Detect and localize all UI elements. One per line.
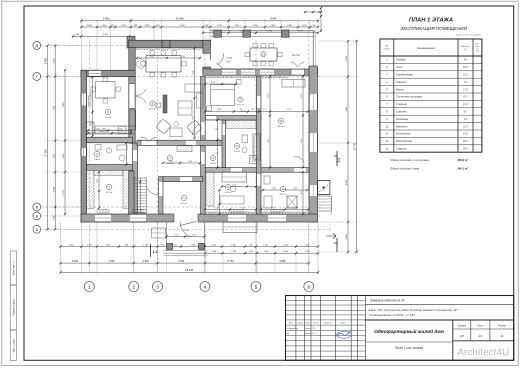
svg-text:2 880: 2 880 xyxy=(144,25,150,27)
svg-text:2 120: 2 120 xyxy=(91,122,93,126)
svg-text:2 300: 2 300 xyxy=(241,207,245,209)
svg-text:Кол.уч: Кол.уч xyxy=(298,323,303,325)
svg-text:1 980: 1 980 xyxy=(293,188,297,190)
svg-text:2 050: 2 050 xyxy=(294,207,298,209)
svg-text:1 430: 1 430 xyxy=(143,244,148,246)
svg-text:1 570: 1 570 xyxy=(211,82,215,84)
svg-text:4 760: 4 760 xyxy=(103,34,108,36)
svg-text:10: 10 xyxy=(479,334,483,338)
svg-text:14.2 м²: 14.2 м² xyxy=(237,103,244,106)
svg-text:5 960: 5 960 xyxy=(103,16,110,20)
svg-text:2 940: 2 940 xyxy=(181,56,185,58)
svg-text:4 860: 4 860 xyxy=(268,139,270,143)
svg-text:3 900: 3 900 xyxy=(53,186,55,192)
svg-text:Бабаев Т. М.: Бабаев Т. М. xyxy=(305,328,316,330)
svg-text:17.3: 17.3 xyxy=(463,88,468,91)
svg-text:1 810: 1 810 xyxy=(234,25,240,27)
svg-text:6: 6 xyxy=(307,284,310,290)
svg-text:Кухня: Кухня xyxy=(396,87,404,91)
svg-text:4 000: 4 000 xyxy=(346,55,348,61)
svg-text:Поз.: Поз. xyxy=(385,46,389,48)
svg-text:1 960: 1 960 xyxy=(87,25,93,27)
svg-text:4 960: 4 960 xyxy=(109,260,116,263)
svg-text:8 890: 8 890 xyxy=(346,179,348,185)
svg-text:5 300: 5 300 xyxy=(178,260,185,263)
svg-text:166.9 м²: 166.9 м² xyxy=(457,158,468,162)
svg-text:2: 2 xyxy=(132,284,135,290)
svg-text:1 010: 1 010 xyxy=(172,244,177,246)
svg-text:760: 760 xyxy=(161,244,164,246)
svg-text:Взам. инв. №: Взам. инв. № xyxy=(13,260,16,275)
svg-text:1 720: 1 720 xyxy=(174,234,178,236)
svg-text:17 160: 17 160 xyxy=(45,148,48,156)
svg-text:2 130: 2 130 xyxy=(271,207,275,209)
svg-text:Площадь: Площадь xyxy=(461,45,471,48)
svg-text:2 080: 2 080 xyxy=(272,188,276,190)
svg-text:4: 4 xyxy=(204,284,207,290)
svg-text:Однофартирный жилой дом: Однофартирный жилой дом xyxy=(374,328,444,335)
svg-text:Б: Б xyxy=(35,214,38,219)
svg-text:1 760: 1 760 xyxy=(211,251,216,253)
svg-text:2 060: 2 060 xyxy=(283,251,288,253)
svg-text:24.7: 24.7 xyxy=(462,148,468,151)
svg-text:План 1-ого этажа: План 1-ого этажа xyxy=(395,346,423,350)
svg-text:3 100: 3 100 xyxy=(91,92,93,96)
svg-text:2 640: 2 640 xyxy=(143,260,150,263)
svg-text:4 640: 4 640 xyxy=(301,139,303,143)
svg-text:Заказчик Евтеев А. М.: Заказчик Евтеев А. М. xyxy=(370,298,405,302)
svg-text:1 350: 1 350 xyxy=(301,25,307,27)
svg-text:2 670: 2 670 xyxy=(150,56,154,58)
svg-text:1 410: 1 410 xyxy=(283,244,288,246)
svg-text:3 380: 3 380 xyxy=(346,234,348,240)
svg-text:860: 860 xyxy=(76,34,79,36)
svg-text:Холл: Холл xyxy=(395,65,403,69)
svg-text:5 880: 5 880 xyxy=(279,260,286,263)
svg-text:3.9 м²: 3.9 м² xyxy=(210,162,216,165)
svg-text:Санузел: Санузел xyxy=(396,80,407,84)
svg-text:1 460: 1 460 xyxy=(69,244,74,246)
svg-text:Дата: Дата xyxy=(340,323,346,325)
svg-text:1 800: 1 800 xyxy=(96,128,100,130)
svg-text:4.1 м²: 4.1 м² xyxy=(181,202,187,205)
svg-text:Листов: Листов xyxy=(497,325,507,327)
svg-text:2 520: 2 520 xyxy=(214,153,218,155)
svg-text:1: 1 xyxy=(88,284,91,290)
svg-text:240.3 м²: 240.3 м² xyxy=(456,167,468,171)
svg-text:2 260: 2 260 xyxy=(252,25,258,27)
svg-text:Подпись: Подпись xyxy=(325,322,332,325)
svg-text:1 850: 1 850 xyxy=(214,129,218,131)
svg-text:Форма 2 ГОСТ 21.501-2011: Форма 2 ГОСТ 21.501-2011 xyxy=(456,33,481,36)
svg-text:1 810: 1 810 xyxy=(264,251,269,253)
svg-text:3 630: 3 630 xyxy=(268,94,270,98)
svg-text:10.2: 10.2 xyxy=(463,74,468,77)
svg-text:9 940: 9 940 xyxy=(270,16,277,20)
svg-text:Гостиная-столовая: Гостиная-столовая xyxy=(396,95,423,99)
svg-text:14.2 м²: 14.2 м² xyxy=(280,193,287,196)
svg-text:1 880: 1 880 xyxy=(287,25,293,27)
svg-text:3: 3 xyxy=(156,284,159,290)
svg-text:Стадия: Стадия xyxy=(457,324,466,327)
svg-text:Терраса: Терраса xyxy=(396,147,407,151)
svg-text:1 820: 1 820 xyxy=(188,161,192,163)
svg-text:Мастерская: Мастерская xyxy=(396,139,413,143)
svg-text:Санузел: Санузел xyxy=(396,110,407,114)
svg-text:ЭКСПЛИКАЦИЯ ПОМЕЩЕНИЙ: ЭКСПЛИКАЦИЯ ПОМЕЩЕНИЙ xyxy=(400,24,467,31)
svg-text:2 210: 2 210 xyxy=(232,184,236,186)
svg-text:7 480: 7 480 xyxy=(346,106,348,112)
svg-text:14: 14 xyxy=(500,334,504,338)
svg-text:1-1: 1-1 xyxy=(153,250,158,254)
svg-text:"Степаньковская слобода", уч.: "Степаньковская слобода", уч. 184 xyxy=(369,313,416,317)
svg-text:Тамбур: Тамбур xyxy=(396,58,406,62)
svg-text:3 470: 3 470 xyxy=(301,94,303,98)
svg-text:В: В xyxy=(35,205,38,210)
svg-text:1 760: 1 760 xyxy=(97,179,99,183)
svg-text:4 450: 4 450 xyxy=(193,71,195,75)
svg-text:1 640: 1 640 xyxy=(191,244,196,246)
svg-text:1 460: 1 460 xyxy=(231,244,236,246)
svg-text:1 700: 1 700 xyxy=(119,131,123,133)
svg-text:26.7: 26.7 xyxy=(462,140,468,143)
svg-text:7 900: 7 900 xyxy=(63,102,65,108)
svg-text:3 060: 3 060 xyxy=(72,260,79,263)
svg-text:4 620: 4 620 xyxy=(180,25,186,27)
svg-text:Спальня: Спальня xyxy=(396,102,408,106)
svg-text:Инв. № подл.: Инв. № подл. xyxy=(13,338,16,353)
svg-text:3 540: 3 540 xyxy=(63,153,65,159)
svg-text:11.4 м²: 11.4 м² xyxy=(225,191,232,194)
svg-text:Д: Д xyxy=(35,43,38,48)
svg-text:-0.200: -0.200 xyxy=(226,58,233,60)
svg-text:Кабинет: Кабинет xyxy=(396,124,408,128)
svg-text:24.7 м²: 24.7 м² xyxy=(291,54,300,57)
svg-text:1 810: 1 810 xyxy=(270,25,276,27)
svg-text:Общая площадь 1-ого этажа: Общая площадь 1-ого этажа xyxy=(390,158,429,162)
svg-text:2 500: 2 500 xyxy=(53,215,55,221)
svg-text:410: 410 xyxy=(263,109,266,111)
svg-text:2 210: 2 210 xyxy=(215,207,219,209)
svg-text:помещ.: помещ. xyxy=(383,48,390,50)
svg-text:11.4: 11.4 xyxy=(463,125,468,128)
svg-text:2 250: 2 250 xyxy=(231,251,236,253)
svg-text:910: 910 xyxy=(125,244,128,246)
svg-text:41.7: 41.7 xyxy=(463,96,468,99)
svg-text:1 210: 1 210 xyxy=(211,244,216,246)
svg-text:3.8 м²: 3.8 м² xyxy=(94,158,100,161)
svg-text:14.2: 14.2 xyxy=(463,133,468,136)
svg-text:Кладовая: Кладовая xyxy=(396,117,409,121)
svg-text:23 750: 23 750 xyxy=(354,142,357,150)
svg-text:4 720: 4 720 xyxy=(63,190,65,196)
svg-text:1 310: 1 310 xyxy=(263,244,268,246)
svg-text:-0.150: -0.150 xyxy=(183,230,189,232)
svg-text:2 980: 2 980 xyxy=(217,109,221,111)
svg-text:2 260: 2 260 xyxy=(98,131,102,133)
svg-text:17.3 м²: 17.3 м² xyxy=(105,116,112,119)
svg-text:510: 510 xyxy=(252,109,255,111)
svg-text:3 780: 3 780 xyxy=(287,109,291,111)
svg-text:5 700: 5 700 xyxy=(228,260,235,263)
svg-text:ВЗ: ВЗ xyxy=(476,51,478,53)
svg-text:10 940: 10 940 xyxy=(176,16,184,20)
svg-text:Лист: Лист xyxy=(304,323,310,325)
svg-text:Евтеев Е. У.: Евтеев Е. У. xyxy=(305,333,316,335)
svg-text:3 540: 3 540 xyxy=(53,153,55,159)
svg-text:3 490: 3 490 xyxy=(53,58,55,64)
svg-text:3 740: 3 740 xyxy=(301,191,303,195)
svg-text:6.7 м²: 6.7 м² xyxy=(234,150,240,153)
svg-text:Лист: Лист xyxy=(476,325,483,327)
svg-text:41.7 м²: 41.7 м² xyxy=(149,107,156,110)
svg-text:26.7 м²: 26.7 м² xyxy=(277,125,285,128)
svg-text:1 720: 1 720 xyxy=(192,234,196,236)
svg-text:3 490: 3 490 xyxy=(45,57,48,64)
svg-text:1 340: 1 340 xyxy=(101,25,107,27)
svg-text:1 560: 1 560 xyxy=(106,244,111,246)
svg-text:Гл. Архитект: Гл. Архитект xyxy=(286,327,298,330)
svg-text:Адрес: МО, Пушкинский район, В: Адрес: МО, Пушкинский район, В районе де… xyxy=(368,308,459,312)
svg-text:1 210: 1 210 xyxy=(249,251,254,253)
svg-text:18.6 м²: 18.6 м² xyxy=(167,162,174,165)
svg-text:Architect4U: Architect4U xyxy=(457,348,509,359)
svg-text:14.2: 14.2 xyxy=(463,103,468,106)
svg-text:Общая площадь дома: Общая площадь дома xyxy=(390,167,419,171)
svg-text:Наименование: Наименование xyxy=(417,46,435,50)
svg-text:760: 760 xyxy=(249,244,252,246)
svg-text:700: 700 xyxy=(240,109,243,111)
svg-text:1 160: 1 160 xyxy=(87,244,92,246)
svg-text:Чел: Чел xyxy=(286,333,289,335)
svg-text:Гардеробная: Гардеробная xyxy=(396,73,413,77)
svg-text:№ док: № док xyxy=(313,322,318,325)
svg-text:3 560: 3 560 xyxy=(193,116,195,120)
svg-text:ПЛАН 1 ЭТАЖА: ПЛАН 1 ЭТАЖА xyxy=(409,17,453,23)
svg-text:Котельная: Котельная xyxy=(396,132,411,136)
svg-text:28 640: 28 640 xyxy=(185,268,193,272)
svg-text:2 060: 2 060 xyxy=(217,25,223,27)
svg-text:18.6: 18.6 xyxy=(463,66,468,69)
svg-text:7 190: 7 190 xyxy=(53,105,55,111)
svg-text:10.2 м²: 10.2 м² xyxy=(106,191,113,194)
svg-text:5: 5 xyxy=(255,284,258,290)
svg-text:м²: м² xyxy=(464,48,466,51)
svg-text:А: А xyxy=(35,227,38,232)
svg-text:Подпись и дата: Подпись и дата xyxy=(14,299,16,316)
svg-text:1 960: 1 960 xyxy=(121,25,127,27)
svg-text:2 000: 2 000 xyxy=(118,128,122,130)
